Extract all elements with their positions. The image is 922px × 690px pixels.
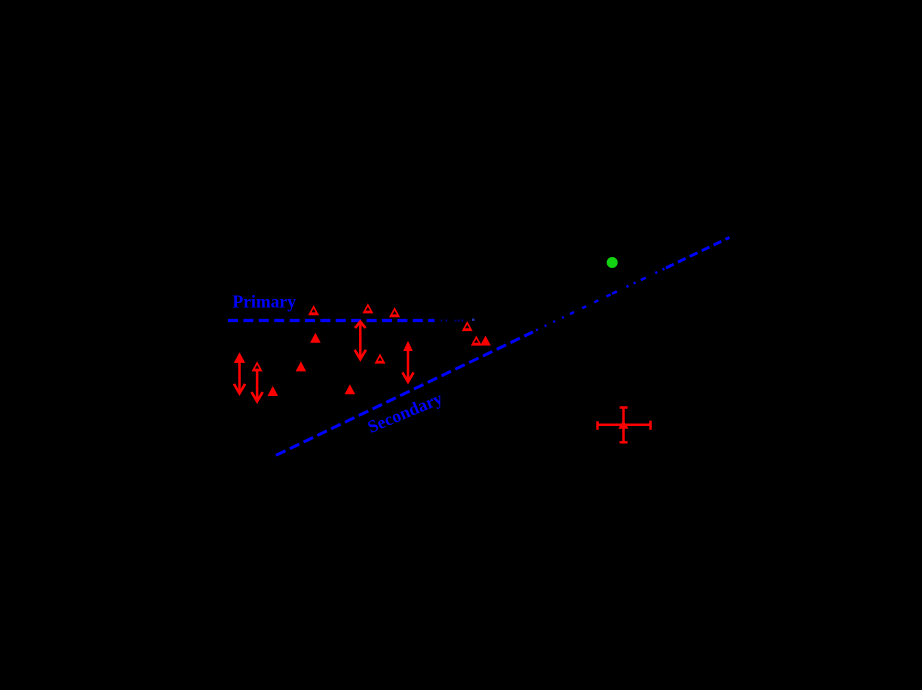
arrow A4: solid head up, V head down [402, 341, 413, 382]
filled triangle F3 [268, 386, 279, 396]
vertical error bar [622, 408, 625, 443]
Secondary line: dotted middle segment [536, 314, 570, 330]
bottom cap [620, 441, 628, 444]
Primary dashed line [228, 319, 435, 322]
error-bar center filled triangle [618, 420, 628, 429]
open triangle O2 [362, 303, 373, 313]
open triangle O5 [471, 336, 482, 346]
filled triangle F5 [480, 336, 491, 346]
left cap [596, 421, 599, 430]
Secondary line: short-dash segment [570, 294, 612, 314]
top cap [620, 406, 628, 409]
arrow A1: solid head up, V head down [234, 352, 245, 393]
horizontal error bar [598, 423, 651, 426]
error-bar data point [598, 408, 651, 443]
svg-text:Primary: Primary [233, 292, 297, 312]
Secondary line: upper dashed segment [666, 237, 730, 268]
filled triangle F4 [345, 384, 356, 394]
filled triangle F1 [310, 333, 321, 343]
Secondary line: mixed dash-dot segment [612, 268, 666, 294]
arrow A2: open triangle marker on top, V head down [252, 361, 263, 401]
green circle data point [607, 257, 618, 268]
filled triangle F2 [296, 361, 307, 371]
open triangle O4 [462, 321, 473, 331]
arrow A3: V heads both ends [355, 322, 366, 360]
open triangle O6 [375, 354, 386, 364]
open triangle O3 [389, 307, 400, 317]
Primary line faint dotted continuation [441, 319, 475, 322]
Secondary line: dashed lower segment [276, 332, 533, 455]
right cap [649, 421, 652, 430]
open triangle O1 [308, 305, 319, 315]
